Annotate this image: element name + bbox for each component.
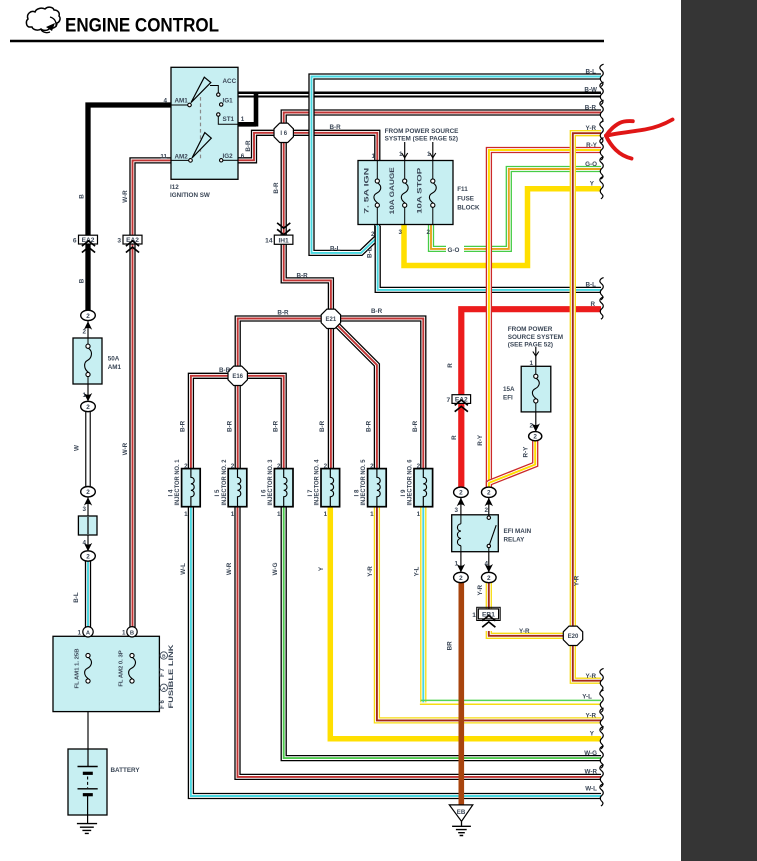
continuation bracket R-Y bbox=[600, 138, 604, 160]
injector NO.6 box bbox=[414, 469, 433, 507]
svg-text:B-R: B-R bbox=[277, 310, 289, 317]
svg-text:R: R bbox=[451, 435, 458, 440]
svg-text:3: 3 bbox=[82, 506, 86, 513]
ground EB bbox=[449, 805, 473, 822]
svg-text:15A: 15A bbox=[503, 386, 515, 393]
fuse element 15A EFI bbox=[534, 374, 538, 378]
wire R-Y 15A EFI fuse to relay pin2 oval bbox=[489, 441, 535, 488]
connector chevron 3 EA2 chevron bbox=[126, 247, 139, 252]
svg-text:EFI: EFI bbox=[503, 395, 513, 402]
svg-text:2: 2 bbox=[459, 490, 463, 497]
svg-text:B-R: B-R bbox=[585, 104, 597, 111]
wire B-L F11 IGN fuse to top exit bbox=[312, 77, 602, 253]
dark sidebar bbox=[681, 0, 757, 861]
svg-text:2: 2 bbox=[459, 575, 463, 582]
node E21 octagon E21 bbox=[321, 309, 340, 328]
circled B label bbox=[160, 652, 167, 659]
svg-text:3: 3 bbox=[454, 507, 458, 514]
svg-text:INJECTOR NO. 6: INJECTOR NO. 6 bbox=[407, 459, 414, 506]
svg-text:W-L: W-L bbox=[180, 563, 187, 575]
svg-text:B: B bbox=[79, 278, 86, 283]
arrow into oval above connector box bbox=[84, 497, 92, 505]
node E16 octagon E16 bbox=[228, 366, 247, 385]
wire B-R IH1 to E21 bbox=[284, 245, 331, 312]
continuation bracket B-L mid bbox=[600, 278, 604, 300]
title rule bbox=[10, 40, 604, 43]
svg-text:2: 2 bbox=[231, 463, 235, 470]
svg-text:R-Y: R-Y bbox=[477, 434, 484, 446]
continuation bracket Y-R E20 bbox=[600, 668, 604, 690]
wire B-R E16 to injector2 bbox=[235, 375, 241, 470]
arrow into relay pin1 oval bbox=[457, 564, 465, 572]
svg-text:E16: E16 bbox=[232, 374, 243, 380]
svg-text:R-Y: R-Y bbox=[523, 446, 530, 458]
wire Y F11 GAUGE fuse to exit bbox=[404, 189, 601, 266]
injector NO.3 coil bbox=[284, 469, 287, 507]
AM1 blade bbox=[191, 77, 211, 102]
wire Y-R top exit through E20 to lower exit bbox=[573, 133, 601, 681]
AM2 terminal bbox=[189, 159, 193, 163]
continuation bracket W-L bbox=[600, 784, 604, 806]
wire FL AM1 lead top bbox=[87, 637, 89, 654]
arrow into oval below connector box bbox=[84, 543, 92, 551]
injector NO.5 coil bbox=[377, 469, 380, 507]
wire lead power source to STOP fuse bbox=[432, 142, 434, 161]
svg-text:Y-R: Y-R bbox=[574, 575, 581, 586]
battery ground bbox=[77, 824, 97, 834]
svg-text:W-R: W-R bbox=[122, 190, 129, 203]
svg-text:E20: E20 bbox=[568, 634, 579, 640]
node I 6 octagon I6 bbox=[274, 123, 293, 142]
svg-text:IGNITION SW: IGNITION SW bbox=[170, 192, 210, 199]
wire relay coil lead bbox=[460, 515, 462, 524]
connector oval left column oval A2-2c bbox=[81, 487, 96, 497]
wire Y-R relay pin4 to EB1 bbox=[486, 582, 492, 610]
fuse element FL AM1 1.25B bbox=[86, 653, 90, 657]
svg-text:2: 2 bbox=[86, 553, 90, 560]
wire F11 IGN fuse lead bottom bbox=[376, 207, 378, 224]
svg-text:IH1: IH1 bbox=[278, 237, 289, 244]
arrow into relay pin4 oval bbox=[485, 564, 493, 572]
wire G-O F11 STOP fuse to exit bbox=[431, 169, 601, 249]
svg-text:W-L: W-L bbox=[585, 786, 597, 793]
svg-text:2: 2 bbox=[484, 507, 488, 514]
svg-text:1: 1 bbox=[399, 151, 403, 158]
svg-text:2: 2 bbox=[86, 404, 90, 411]
wire B-R I6 to F11 IGN fuse bbox=[291, 133, 377, 162]
wire AM2 stub bbox=[171, 159, 189, 161]
wire stub relay pin4 bbox=[488, 551, 490, 573]
svg-text:BLOCK: BLOCK bbox=[457, 205, 480, 212]
wire B-R I6 down to IH1 bbox=[281, 140, 287, 235]
svg-text:14: 14 bbox=[265, 238, 273, 245]
svg-text:ENGINE CONTROL: ENGINE CONTROL bbox=[65, 15, 219, 37]
wire BR relay pin1 to ground EB bbox=[458, 582, 464, 805]
connector oval relay pin4 oval bbox=[482, 572, 497, 582]
continuation bracket Y-R low bbox=[600, 708, 604, 730]
connector oval 15A EFI output oval bbox=[529, 432, 542, 441]
injector NO.4 box bbox=[321, 469, 340, 507]
continuation bracket Y-R top bbox=[600, 121, 604, 143]
svg-text:B-R: B-R bbox=[319, 420, 326, 432]
svg-text:INJECTOR NO. 1: INJECTOR NO. 1 bbox=[174, 459, 181, 506]
wire ST1 elbow bbox=[218, 116, 238, 124]
connector chevron 7 EA2 chevron bbox=[455, 406, 468, 411]
fuse 50A AM1 box bbox=[73, 338, 102, 384]
arrow into relay pin2 oval bbox=[485, 498, 493, 506]
svg-text:Y-R: Y-R bbox=[477, 585, 484, 596]
connector oval left column oval A2-2b bbox=[81, 401, 96, 411]
svg-text:1: 1 bbox=[82, 392, 86, 399]
wire R exit to EA2 to EFI main relay pin3 bbox=[461, 309, 601, 488]
svg-text:BR: BR bbox=[447, 641, 454, 651]
svg-text:1: 1 bbox=[427, 151, 431, 158]
wire B-L F11 IGN fuse to mid exit bbox=[378, 226, 601, 290]
ignition dashed link bbox=[200, 97, 202, 161]
continuation bracket Y top bbox=[600, 177, 604, 199]
svg-text:B-R: B-R bbox=[273, 182, 280, 194]
svg-text:1: 1 bbox=[241, 116, 245, 123]
wire FL AM2 lead top bbox=[131, 637, 133, 654]
svg-text:FROM POWER SOURCE: FROM POWER SOURCE bbox=[385, 128, 460, 135]
title icon (car doodle) bbox=[26, 7, 60, 30]
wire stub oval to 50A fuse bbox=[87, 321, 89, 340]
wire Y injector4 to exit bbox=[330, 506, 601, 739]
svg-text:2: 2 bbox=[487, 490, 491, 497]
connector 3 EA2 bbox=[123, 235, 142, 244]
svg-text:1: 1 bbox=[77, 629, 81, 636]
svg-text:2: 2 bbox=[86, 489, 90, 496]
injector NO.2 coil bbox=[238, 469, 241, 507]
connector oval relay pin2 oval bbox=[482, 487, 497, 497]
svg-text:1: 1 bbox=[277, 511, 281, 518]
connector chevron 14 IH1 chevron bbox=[277, 223, 290, 228]
svg-text:2: 2 bbox=[529, 423, 533, 430]
svg-text:2: 2 bbox=[277, 463, 281, 470]
wire Y-R injector5 to exit bbox=[377, 506, 601, 720]
svg-text:6: 6 bbox=[241, 153, 245, 160]
svg-text:E21: E21 bbox=[326, 317, 337, 323]
wire W-R injector2 to exit bbox=[238, 506, 602, 777]
svg-text:IG2: IG2 bbox=[223, 153, 234, 160]
wire stub oval to connector box bbox=[87, 496, 89, 517]
battery box bbox=[68, 749, 107, 815]
svg-text:B-L: B-L bbox=[586, 68, 597, 75]
fusible link connector circle B bbox=[127, 627, 137, 637]
fuse block F11 bbox=[358, 161, 453, 225]
svg-text:10A STOP: 10A STOP bbox=[418, 168, 424, 214]
injector NO.1 coil bbox=[191, 469, 194, 507]
svg-text:2: 2 bbox=[370, 463, 374, 470]
continuation bracket Y low bbox=[600, 727, 604, 749]
wire B-R E21 to injector4 bbox=[328, 318, 334, 470]
svg-text:1: 1 bbox=[529, 360, 533, 367]
svg-text:2: 2 bbox=[184, 463, 188, 470]
wire B-R IG2 to I6 bbox=[238, 133, 276, 161]
wire B-R E21 to E16 bbox=[238, 319, 332, 368]
connector oval left column oval A2-2d bbox=[81, 551, 96, 561]
wire stub connector box to oval bbox=[87, 534, 89, 552]
wire FL AM2 lead join bbox=[88, 683, 132, 702]
wire B-R E21 diagonal to injector5 bbox=[331, 319, 377, 470]
svg-text:B-W: B-W bbox=[584, 86, 597, 93]
svg-text:AM1: AM1 bbox=[108, 364, 122, 371]
svg-text:ACC: ACC bbox=[223, 78, 237, 85]
wire lead from power source to 15A EFI fuse bbox=[535, 347, 537, 367]
continuation bracket B-R bbox=[600, 100, 604, 122]
svg-text:B-L: B-L bbox=[367, 247, 374, 258]
arrow into relay pin3 oval bbox=[457, 498, 465, 506]
wire FL AM1 lead to battery bbox=[87, 683, 89, 767]
svg-text:ST1: ST1 bbox=[223, 116, 235, 123]
injector NO.4 coil bbox=[330, 469, 333, 507]
fuse element 10A GAUGE bbox=[403, 179, 407, 183]
connector 7 EA2 bbox=[452, 395, 471, 404]
svg-text:Y-R: Y-R bbox=[586, 125, 597, 132]
wire 50A lead bottom bbox=[87, 377, 89, 384]
svg-text:FROM POWER: FROM POWER bbox=[508, 326, 553, 333]
svg-text:G-O: G-O bbox=[448, 247, 460, 254]
wire B-R E16 to injector3 bbox=[237, 376, 284, 470]
label G-O on wire (white backed) bbox=[446, 245, 464, 253]
wire battery lead to ground bbox=[87, 796, 89, 824]
injector NO.1 box bbox=[182, 469, 201, 507]
wire relay contact lead bottom bbox=[488, 548, 490, 552]
svg-text:1: 1 bbox=[417, 511, 421, 518]
svg-text:6: 6 bbox=[73, 238, 77, 245]
connector oval relay pin1 oval bbox=[454, 572, 469, 582]
svg-text:Y-R: Y-R bbox=[367, 566, 374, 577]
svg-text:4: 4 bbox=[484, 561, 488, 568]
connector 1 EB1 bbox=[478, 609, 498, 619]
svg-text:W-G: W-G bbox=[272, 562, 279, 575]
svg-text:FUSIBLE LINK: FUSIBLE LINK bbox=[168, 644, 175, 709]
svg-text:50A: 50A bbox=[108, 356, 120, 363]
wire B ignition AM1 to EA2 bbox=[88, 105, 171, 236]
connector 14 IH1 bbox=[274, 235, 293, 244]
AM1 terminal bbox=[188, 103, 192, 107]
svg-text:7: 7 bbox=[447, 397, 451, 404]
wire stub relay pin2 bbox=[488, 497, 490, 516]
svg-text:B-R: B-R bbox=[180, 420, 187, 432]
continuation bracket B-L top bbox=[600, 64, 604, 86]
wire IG2 lead bbox=[223, 159, 238, 161]
injector NO.5 box bbox=[368, 469, 387, 507]
wire B-W to exit bbox=[238, 92, 601, 95]
wire F11 STOP lead top bbox=[432, 161, 434, 180]
svg-text:B-R: B-R bbox=[226, 420, 233, 432]
fusible link connector circle A bbox=[83, 627, 93, 637]
svg-text:Y-R: Y-R bbox=[586, 712, 597, 719]
svg-text:1: 1 bbox=[472, 612, 476, 619]
fuse element 50A AM1 bbox=[86, 344, 90, 348]
svg-text:B-R: B-R bbox=[297, 273, 309, 280]
svg-text:FUSE: FUSE bbox=[457, 195, 474, 202]
svg-text:3: 3 bbox=[398, 229, 402, 236]
svg-text:R: R bbox=[447, 363, 454, 368]
svg-text:3: 3 bbox=[117, 238, 121, 245]
continuation bracket W-R bbox=[600, 765, 604, 787]
wire F11 STOP lead bottom bbox=[432, 207, 434, 224]
svg-text:W-R: W-R bbox=[122, 442, 129, 455]
wire Y-R EB1 to E20 bbox=[489, 631, 573, 636]
injector NO.2 box bbox=[228, 469, 247, 507]
wire relay coil lead bottom bbox=[460, 546, 462, 552]
svg-text:4: 4 bbox=[82, 539, 86, 546]
svg-text:B: B bbox=[162, 654, 166, 660]
arrow into oval below 50A fuse bbox=[84, 393, 92, 401]
svg-text:B-R: B-R bbox=[371, 308, 383, 315]
svg-text:2: 2 bbox=[82, 329, 86, 336]
wire W-G injector3 to exit bbox=[284, 506, 601, 758]
wire F11 IGN fuse lead top bbox=[376, 161, 378, 180]
connector oval relay pin3 oval bbox=[454, 487, 469, 497]
wire 15A lead bottom bbox=[535, 403, 537, 412]
connector 6 EA2 bbox=[79, 235, 98, 244]
wire B EA2 to oval bbox=[85, 244, 90, 311]
svg-text:Y-R: Y-R bbox=[586, 673, 597, 680]
svg-text:BATTERY: BATTERY bbox=[111, 767, 141, 774]
svg-text:EFI MAIN: EFI MAIN bbox=[504, 528, 532, 535]
svg-text:2: 2 bbox=[426, 229, 430, 236]
wire W-R ignition AM2 to EA2 to fusible link B bbox=[133, 160, 172, 627]
wire Y-L injector6 vertical bbox=[420, 506, 426, 702]
svg-text:Y-L: Y-L bbox=[582, 693, 592, 700]
connector chevron 6 EA2 chevron bbox=[82, 247, 95, 252]
wire wire through connector box bbox=[87, 517, 89, 534]
wire battery lead top bbox=[87, 749, 89, 767]
arrow into oval above 50A fuse bbox=[84, 321, 92, 329]
wire B-R E16 to injector1 bbox=[191, 376, 239, 470]
svg-text:B-R: B-R bbox=[366, 420, 373, 432]
svg-text:FL AM1 1. 25B: FL AM1 1. 25B bbox=[74, 649, 80, 689]
svg-text:B-R: B-R bbox=[245, 140, 252, 152]
circled A label bbox=[160, 684, 167, 691]
svg-text:FL AM2 0. 3P: FL AM2 0. 3P bbox=[118, 650, 124, 686]
fuse element FL AM2 0.3P bbox=[130, 653, 134, 657]
svg-text:2: 2 bbox=[86, 313, 90, 320]
svg-text:B-R: B-R bbox=[412, 420, 419, 432]
svg-text:B-R: B-R bbox=[330, 124, 342, 131]
wire B-W riser bbox=[254, 92, 259, 127]
svg-text:R: R bbox=[590, 301, 595, 308]
red annotation arrow bbox=[606, 120, 673, 159]
continuation bracket Y-L bbox=[600, 690, 604, 712]
wire B-W ST1 segment bbox=[238, 122, 256, 127]
svg-text:1: 1 bbox=[231, 511, 235, 518]
svg-text:1: 1 bbox=[324, 511, 328, 518]
arrowhead power source GAUGE bbox=[402, 153, 408, 158]
svg-text:1: 1 bbox=[454, 561, 458, 568]
svg-text:B: B bbox=[130, 630, 134, 636]
svg-text:SOURCE SYSTEM: SOURCE SYSTEM bbox=[508, 334, 563, 341]
svg-text:B-R: B-R bbox=[219, 367, 231, 374]
svg-text:W-G: W-G bbox=[584, 750, 597, 757]
wire F11 GAUGE lead top bbox=[404, 161, 406, 180]
svg-text:SYSTEM (SEE PAGE 52): SYSTEM (SEE PAGE 52) bbox=[385, 136, 458, 143]
fusible link block bbox=[53, 636, 159, 711]
arrowhead power source STOP bbox=[430, 153, 436, 158]
ignition switch I12 box bbox=[171, 67, 238, 179]
svg-text:W-R: W-R bbox=[226, 562, 233, 575]
injector NO.6 coil bbox=[423, 469, 426, 507]
junction dot bbox=[86, 700, 90, 704]
continuation bracket B-W bbox=[600, 82, 604, 104]
svg-text:10A GAUGE: 10A GAUGE bbox=[390, 167, 396, 214]
svg-text:1: 1 bbox=[184, 511, 188, 518]
fuse 15A EFI box bbox=[521, 366, 551, 412]
wire W (oval to oval) bbox=[85, 411, 91, 487]
wire 50A lead top bbox=[87, 338, 89, 344]
svg-text:A: A bbox=[162, 686, 166, 692]
wire AM1 stub bbox=[171, 104, 188, 106]
svg-text:RELAY: RELAY bbox=[504, 536, 526, 543]
svg-text:AM2: AM2 bbox=[175, 154, 189, 161]
wire lead power source to GAUGE fuse bbox=[404, 142, 406, 161]
svg-text:4: 4 bbox=[163, 97, 167, 104]
node E20 octagon E20 bbox=[563, 626, 582, 645]
svg-text:2: 2 bbox=[417, 463, 421, 470]
AM2 blade bbox=[192, 133, 211, 158]
svg-text:(SEE PAGE 52): (SEE PAGE 52) bbox=[508, 342, 553, 349]
svg-text:AM1: AM1 bbox=[175, 97, 189, 104]
wire stub relay pin3 bbox=[460, 497, 462, 516]
arrow into 15A EFI oval bbox=[532, 423, 540, 431]
wire W-L injector1 to exit bbox=[191, 506, 601, 796]
injector NO.3 box bbox=[274, 469, 293, 507]
svg-text:W-R: W-R bbox=[585, 769, 598, 776]
wire ACC elbow bbox=[210, 86, 218, 93]
svg-text:11: 11 bbox=[160, 154, 167, 161]
continuation bracket W-G bbox=[600, 746, 604, 768]
connector chevron 1 EB1 chevron bbox=[482, 622, 495, 627]
svg-text:7. 5A IGN: 7. 5A IGN bbox=[365, 168, 371, 214]
fuse element 7.5A IGN bbox=[375, 179, 379, 183]
svg-text:1: 1 bbox=[371, 153, 375, 160]
arrowhead power source 15A bbox=[533, 352, 539, 357]
wire F11 GAUGE lead bottom bbox=[404, 207, 406, 224]
wire stub 50A fuse to oval bbox=[87, 383, 89, 402]
wire stub relay pin1 bbox=[460, 551, 462, 573]
svg-text:Y-L: Y-L bbox=[413, 566, 420, 576]
wire relay contact lead top bbox=[488, 515, 490, 516]
svg-text:2: 2 bbox=[324, 463, 328, 470]
svg-text:R-Y: R-Y bbox=[586, 142, 598, 149]
svg-text:Y-R: Y-R bbox=[519, 628, 530, 635]
wire B-L oval to fusible link A bbox=[85, 561, 91, 628]
wire stub 15A EFI fuse to oval bbox=[535, 411, 537, 432]
svg-text:F11: F11 bbox=[457, 186, 468, 193]
svg-text:INJECTOR NO. 5: INJECTOR NO. 5 bbox=[360, 459, 367, 506]
svg-text:I12: I12 bbox=[170, 184, 179, 191]
svg-text:2: 2 bbox=[533, 434, 537, 441]
svg-text:IG1: IG1 bbox=[223, 97, 234, 104]
svg-text:INJECTOR NO. 4: INJECTOR NO. 4 bbox=[314, 459, 321, 506]
wire R-Y top exit down to relay pin2 oval bbox=[489, 150, 601, 488]
svg-text:INJECTOR NO. 3: INJECTOR NO. 3 bbox=[267, 459, 274, 506]
svg-text:W: W bbox=[74, 445, 81, 451]
svg-text:1: 1 bbox=[122, 629, 126, 636]
svg-text:2: 2 bbox=[487, 575, 491, 582]
svg-text:G-O: G-O bbox=[585, 161, 597, 168]
svg-text:B-L: B-L bbox=[586, 282, 597, 289]
svg-text:B-L: B-L bbox=[330, 245, 341, 252]
svg-text:EB: EB bbox=[457, 809, 466, 816]
svg-text:B-L: B-L bbox=[73, 592, 80, 603]
wire Y-L horizontal to exit bbox=[421, 699, 601, 701]
svg-text:2: 2 bbox=[371, 231, 375, 238]
EFI main relay box bbox=[452, 515, 499, 552]
